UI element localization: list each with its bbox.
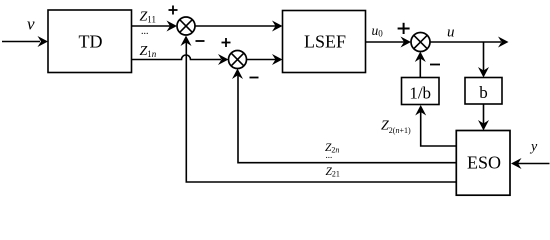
wire Z1n: TD to junction J2 (with hop over Z21 vertical) (132, 54, 229, 65)
svg-text:b: b (479, 83, 488, 102)
wire Z2n: ESO to J2 (232, 69, 456, 163)
svg-text:u0: u0 (372, 23, 384, 39)
svg-text:TD: TD (79, 32, 103, 52)
label plus at J3 (398, 23, 410, 34)
wire LSEF to junction J3 (366, 37, 412, 48)
summing junction J2 (229, 51, 247, 69)
wire 1/b up to J3 (415, 52, 426, 78)
svg-text:Z21: Z21 (326, 166, 340, 179)
label plus at J1 (169, 6, 178, 15)
summing junction J1 (177, 17, 195, 35)
label minus at J2 (250, 77, 259, 79)
svg-text:Z2(n+1): Z2(n+1) (381, 118, 411, 135)
svg-text:y: y (529, 140, 538, 155)
svg-text:Z1n: Z1n (140, 44, 157, 59)
block LSEF (283, 11, 366, 73)
wire J2 to LSEF (247, 54, 283, 65)
wire u: J3 to right output (430, 37, 509, 48)
label plus at J2 (222, 38, 231, 47)
block 1/b (402, 78, 440, 105)
summing junction J3 (411, 33, 430, 52)
wire v input (2, 36, 48, 47)
svg-text:...: ... (141, 26, 149, 37)
svg-text:LSEF: LSEF (304, 32, 346, 52)
wire branch down from u to block b (478, 42, 489, 78)
svg-text:ESO: ESO (467, 153, 501, 173)
label minus at J1 (196, 40, 205, 42)
svg-text:1/b: 1/b (409, 84, 431, 103)
wire Z21: ESO to J1 (passes under hop in Z1n wire) (181, 36, 457, 183)
svg-text:Z11: Z11 (140, 10, 156, 25)
block b (465, 78, 502, 105)
svg-text:u: u (447, 25, 455, 41)
wire y input (511, 158, 550, 169)
label minus at J3 (430, 64, 440, 66)
wire J1 to LSEF (195, 21, 283, 32)
wire b down to ESO (478, 104, 489, 131)
svg-text:...: ... (326, 150, 333, 160)
wire Z11: TD to junction J1 (132, 21, 178, 32)
block TD (48, 10, 132, 73)
svg-text:v: v (27, 15, 35, 34)
wire Z2(n+1): ESO to 1/b (415, 105, 456, 146)
block ESO (456, 131, 510, 196)
